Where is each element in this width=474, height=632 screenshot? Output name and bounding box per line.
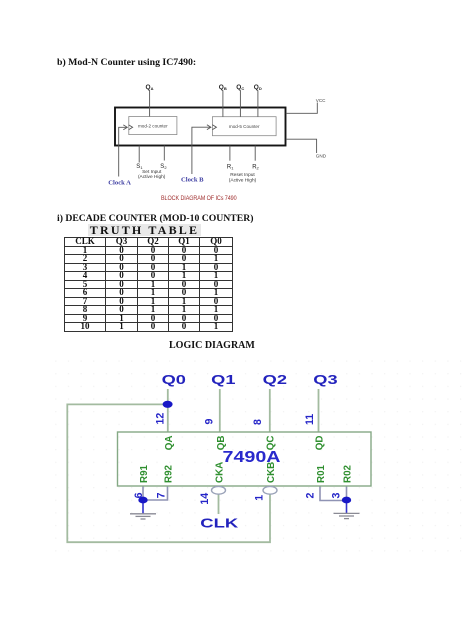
svg-text:QB: QB — [219, 84, 227, 91]
svg-text:9: 9 — [204, 419, 216, 425]
svg-text:QD: QD — [315, 436, 326, 451]
svg-text:mod-5 Counter: mod-5 Counter — [229, 124, 260, 129]
svg-text:R91: R91 — [139, 464, 150, 483]
pin names green — [139, 436, 354, 484]
stub R1 — [229, 146, 231, 161]
svg-text:3: 3 — [330, 493, 342, 499]
wire QD output — [257, 91, 259, 117]
wire clock A into mod-2 — [119, 127, 127, 176]
wire R92 pin 7 — [143, 486, 168, 500]
svg-text:12: 12 — [154, 413, 166, 425]
svg-text:8: 8 — [252, 419, 264, 425]
mod-2 counter block — [129, 117, 276, 136]
svg-text:R2: R2 — [252, 164, 259, 170]
svg-text:1: 1 — [254, 495, 266, 501]
mod-5 counter block — [212, 117, 276, 136]
pin bubble CKB pin 1 — [263, 486, 277, 494]
block diagram SVG placeholder — [100, 78, 340, 208]
svg-text:CKB: CKB — [266, 462, 277, 483]
svg-text:Q3: Q3 — [313, 373, 337, 387]
wire Q0 to QA pin — [167, 389, 169, 432]
wire R01 pin 2 — [320, 486, 347, 501]
svg-text:QA: QA — [164, 436, 175, 451]
svg-text:S2: S2 — [160, 164, 167, 170]
wire CKA to CLK — [218, 494, 220, 514]
svg-text:Set Input: Set Input — [142, 169, 162, 175]
svg-text:Q2: Q2 — [263, 373, 287, 387]
wire QB output — [222, 91, 224, 117]
svg-text:7: 7 — [156, 492, 168, 498]
svg-text:Clock A: Clock A — [108, 179, 131, 186]
junction node Q0 — [163, 401, 173, 408]
wire clock B into mod-5 — [192, 127, 210, 174]
junction node R91/R92 — [138, 497, 147, 504]
stub S1 — [138, 146, 140, 163]
svg-text:R02: R02 — [343, 464, 354, 483]
wire GND — [286, 139, 317, 153]
junction node R01/R02 — [342, 497, 351, 504]
wire VCC — [286, 103, 318, 114]
svg-text:6: 6 — [133, 492, 145, 498]
stub R2 — [254, 146, 256, 161]
svg-text:R92: R92 — [164, 464, 175, 483]
wire QC output — [239, 91, 241, 117]
svg-text:(Active High): (Active High) — [229, 178, 257, 184]
svg-text:GND: GND — [316, 154, 327, 159]
ground symbol left — [130, 514, 156, 519]
schematic grid dots — [50, 360, 462, 556]
heading: i) DECADE COUNTER — [57, 213, 253, 224]
svg-text:mod-2 counter: mod-2 counter — [138, 124, 168, 129]
ground symbol right — [334, 513, 360, 518]
stub S2 — [163, 146, 165, 161]
wire Q3 to QD pin — [318, 389, 320, 432]
ground stub left — [142, 500, 144, 513]
IC U1 7490A box — [118, 432, 372, 486]
svg-text:QB: QB — [216, 436, 227, 451]
ground stub right — [346, 500, 348, 513]
wire R02 pin 3 — [346, 486, 348, 500]
svg-text:QD: QD — [254, 84, 262, 91]
heading: b) Mod-N Counter using IC7490: — [57, 57, 196, 68]
svg-text:Clock B: Clock B — [181, 177, 204, 184]
logic schematic SVG placeholder — [40, 355, 474, 560]
pin bubble CKA pin 14 — [212, 486, 226, 494]
svg-text:(Active High): (Active High) — [138, 174, 166, 180]
wire Q2 to QC pin — [269, 389, 271, 432]
svg-text:Reset Input: Reset Input — [230, 172, 255, 178]
svg-text:Q0: Q0 — [162, 373, 186, 387]
outer IC7490 box — [115, 108, 286, 146]
pin numbers blue — [133, 413, 342, 505]
svg-text:CLK: CLK — [200, 516, 239, 531]
wire QA output — [119, 91, 318, 177]
svg-text:QC: QC — [236, 84, 244, 91]
svg-text:Q1: Q1 — [211, 373, 235, 387]
svg-text:VCC: VCC — [316, 98, 326, 103]
svg-text:R1: R1 — [227, 164, 234, 170]
truth table — [64, 237, 233, 332]
red caption — [161, 195, 237, 202]
wire R91 pin 6 — [142, 486, 144, 500]
truth table heading — [88, 224, 201, 236]
svg-text:11: 11 — [304, 414, 316, 425]
svg-text:QC: QC — [266, 436, 277, 451]
svg-text:CKA: CKA — [215, 462, 226, 483]
svg-text:2: 2 — [305, 493, 317, 499]
heading: LOGIC DIAGRAM — [169, 340, 255, 351]
svg-text:14: 14 — [199, 493, 211, 505]
svg-text:QA: QA — [146, 84, 154, 91]
wire Q1 to QB pin — [219, 389, 221, 432]
wire Q0 feedback net to CKB — [67, 404, 270, 542]
svg-text:R01: R01 — [316, 464, 327, 483]
